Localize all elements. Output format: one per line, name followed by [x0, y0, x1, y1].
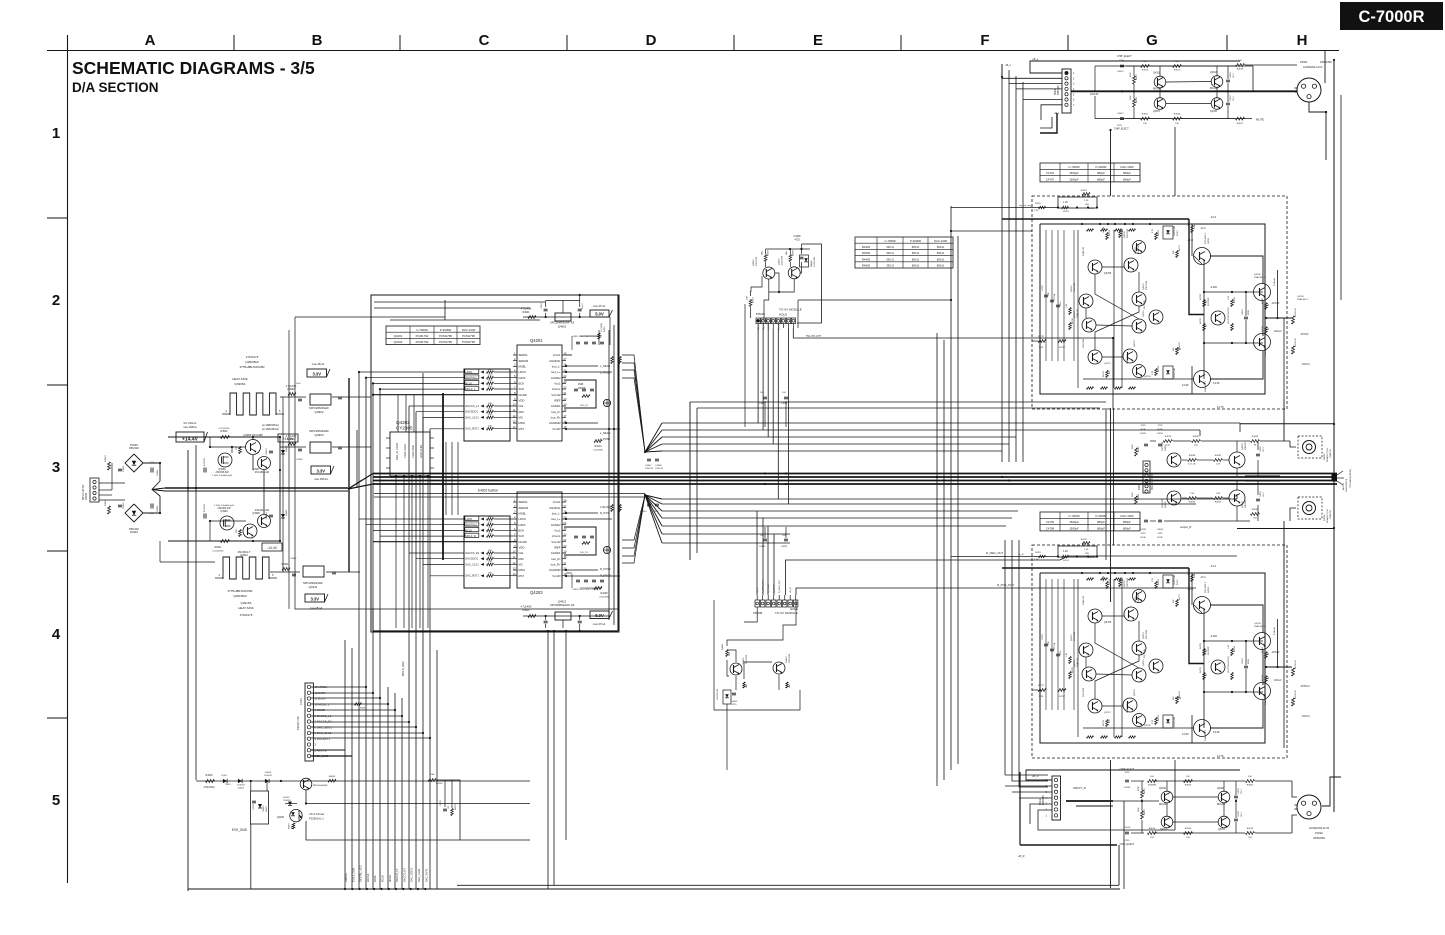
svg-text:CHIP_ELECT: CHIP_ELECT: [1117, 55, 1132, 58]
svg-text:DATA: DATA: [519, 523, 526, 527]
svg-text:C: C: [479, 32, 490, 49]
svg-text:C4065: C4065: [1260, 445, 1262, 452]
grid tick top E|F: [900, 35, 902, 50]
svg-text:MCLK_L: MCLK_L: [465, 387, 476, 391]
power flag 3.3V (bottom): [305, 594, 325, 602]
amp block R mid bias transistor Q4717: [1149, 659, 1163, 673]
svg-text:4700/25: 4700/25: [204, 503, 206, 512]
svg-text:-12.8: -12.8: [1187, 238, 1193, 242]
wire XLR B to right vertical: [1322, 777, 1341, 806]
svg-text:10K_1%: 10K_1%: [580, 405, 588, 407]
right long vertical x1110: [1110, 130, 1112, 196]
resistor R4915 4.47(1/2W): [108, 506, 111, 514]
svg-text:Q4723: Q4723: [1134, 689, 1136, 696]
transistor Q4015 (lower): [1211, 98, 1223, 110]
LED LA201: [223, 779, 227, 783]
svg-text:R4026: R4026: [1247, 828, 1254, 830]
amp block L transistor Q4703 2SC2000: [1133, 241, 1146, 254]
power flag 3.3V (middle): [311, 466, 331, 474]
svg-text:AGND3R: AGND3R: [549, 421, 561, 425]
wire CN13 pin2 AMUTE: [311, 749, 345, 751]
wire vertical x357: [356, 430, 358, 488]
svg-text:330 Ω: 330 Ω: [886, 251, 894, 255]
transistor Q4032 (lower): [1167, 491, 1181, 505]
svg-text:Q4903BxZ: Q4903BxZ: [245, 360, 259, 364]
cap C4059 CHIP_ELECT: [1125, 779, 1129, 781]
transistor Q4012: [1161, 816, 1173, 828]
svg-text:(or 2SD2394-E): (or 2SD2394-E): [262, 428, 279, 431]
svg-text:R4729: R4729: [1234, 645, 1236, 652]
svg-text:Q4722: Q4722: [1104, 363, 1111, 365]
wire bundle top link: [951, 230, 1032, 232]
svg-text:P4305: P4305: [1139, 483, 1141, 490]
wire box top rails: [374, 301, 545, 303]
svg-text:680μF: 680μF: [1123, 178, 1131, 182]
svg-text:680μF: 680μF: [1097, 527, 1105, 531]
resistor R4057 100: [1141, 117, 1150, 120]
svg-text:C4907: C4907: [290, 558, 297, 560]
svg-text:0.22(1/2W): 0.22(1/2W): [213, 551, 224, 553]
zener D4901 UDZ11B: [281, 514, 285, 518]
svg-text:R4029: R4029: [1136, 96, 1138, 103]
amp block L transistor Q4710 2SA1312: [1124, 258, 1138, 272]
svg-text:R4306: R4306: [768, 249, 770, 256]
wires RCA section: [1150, 440, 1156, 442]
svg-text:MC: MC: [519, 562, 523, 566]
svg-text:-0.628: -0.628: [1210, 286, 1217, 289]
amp block R transistor Q4713 2SC3324: [1132, 641, 1146, 655]
amp block L VAS transistor lower 2SA1360: [1194, 371, 1211, 388]
amp block R dashed enclosure: [1032, 545, 1287, 758]
resistor R4081 100: [1192, 440, 1201, 443]
bridge rectifier RBV402 (upper): [125, 454, 143, 472]
resistor R4084 (lower mute): [1251, 513, 1260, 516]
svg-text:4.7(1/4W): 4.7(1/4W): [599, 597, 609, 599]
svg-text:R4739: R4739: [1103, 719, 1105, 726]
svg-text:DACSDO1: DACSDO1: [465, 410, 478, 414]
svg-text:-12.8: -12.8: [1187, 587, 1193, 591]
svg-text:C4908: C4908: [655, 465, 662, 467]
svg-text:RN1441: RN1441: [1153, 89, 1162, 91]
svg-text:DC 220mA: DC 220mA: [184, 421, 197, 425]
svg-text:2.7K: 2.7K: [1152, 577, 1154, 582]
resistor R4905 330: [239, 447, 242, 454]
svg-text:Q4712: Q4712: [1071, 285, 1073, 292]
svg-text:680 Ω: 680 Ω: [912, 264, 920, 268]
resistor 220K lower: [1135, 496, 1138, 504]
svg-text:P-3000R: P-3000R: [910, 239, 921, 243]
amp block L transistor Q4723 2SC3324: [1123, 349, 1137, 363]
bypass caps bottom of Q4203: [576, 579, 580, 581]
svg-text:-14.3: -14.3: [1210, 215, 1216, 219]
resistor R4029 220K: [1133, 99, 1136, 107]
svg-text:181mV: 181mV: [1274, 330, 1282, 333]
svg-text:R4057: R4057: [1142, 114, 1149, 116]
svg-text:-14.3: -14.3: [1210, 564, 1216, 568]
svg-text:A: A: [145, 32, 156, 49]
svg-text:C4705: C4705: [1042, 633, 1044, 640]
amp block L VAS transistor 2SC3422-Y: [1194, 248, 1211, 265]
svg-text:RCA(OUT)-16: RCA(OUT)-16: [1326, 447, 1329, 462]
svg-text:+B_R: +B_R: [1018, 854, 1025, 858]
svg-text:UGZ05-HB: UGZ05-HB: [1174, 574, 1176, 585]
regulator Q4902 MPC29M33HF: [310, 394, 331, 405]
grid tick top D|E: [733, 35, 735, 50]
resistor 220K R4003: [1141, 790, 1144, 798]
amp block outside resistors upper: [1292, 316, 1295, 324]
svg-text:680μF: 680μF: [1123, 171, 1131, 175]
amp block R top rail dots: [1081, 572, 1083, 574]
resistor R4083 (mute): [1251, 440, 1260, 443]
svg-text:R4743: R4743: [1179, 690, 1181, 697]
transistor Q4313 2SC2000: [788, 267, 800, 279]
transistor Q4031 2SC2240: [1167, 453, 1181, 467]
grid tick left 2|3: [47, 384, 67, 386]
svg-text:5.0V: 5.0V: [595, 311, 604, 316]
cap C4400 4725: [732, 692, 736, 694]
svg-text:EV3.3_GND: EV3.3_GND: [351, 868, 355, 882]
svg-text:BCLK: BCLK: [465, 381, 472, 385]
svg-text:11 BCLK: 11 BCLK: [315, 697, 326, 701]
svg-text:Q4711: Q4711: [1208, 237, 1210, 244]
buffer bottom rail: [1095, 118, 1252, 120]
svg-text:680 Ω: 680 Ω: [937, 251, 945, 255]
svg-text:COLD: COLD: [1090, 92, 1099, 96]
svg-text:C4913: C4913: [266, 448, 268, 455]
svg-text:DGND: DGND: [519, 540, 527, 544]
amp block L emitter resistors: [1106, 233, 1109, 240]
svg-text:13.25: 13.25: [1213, 730, 1220, 734]
svg-text:R4228: R4228: [600, 592, 608, 595]
svg-text:101J: 101J: [1233, 97, 1235, 101]
wire DAC outputs to fan R: [622, 495, 645, 540]
svg-text:C-7000R: C-7000R: [884, 239, 895, 243]
amp block R output emitter resistors: [1265, 652, 1268, 659]
caps C4930/C4932 104: [763, 538, 767, 540]
right long vertical x1334: [1333, 60, 1335, 812]
transistor Q4905 2SA1488: [246, 440, 261, 455]
mid-right vertical bundle: [936, 333, 938, 786]
svg-text:4 DACRST1: 4 DACRST1: [315, 737, 331, 741]
resistor R4090 lower: [1188, 497, 1197, 500]
svg-text:220B: 220B: [1248, 310, 1250, 315]
amp block R transistor Q4710 2SA1312: [1124, 607, 1138, 621]
svg-text:D4201: D4201: [238, 788, 245, 790]
svg-text:DACCS_RT: DACCS_RT: [402, 868, 406, 882]
svg-text:C4915 10uJ C4917 220/16: C4915 10uJ C4917 220/16: [572, 589, 599, 591]
svg-text:Q4908: Q4908: [252, 512, 260, 515]
opto coupler Q4205 PS2561AL-1: [290, 809, 302, 821]
amp block R transistor Q4706 2SA1312: [1088, 609, 1102, 623]
wire DGND heavy upper: [373, 394, 517, 396]
svg-text:2SD655: 2SD655: [1245, 499, 1247, 508]
cap C4057 CHIP_ELECT (lower): [1120, 117, 1124, 119]
svg-text:Q4032: Q4032: [1165, 501, 1167, 508]
svg-text:2SC3324: 2SC3324: [1074, 631, 1076, 641]
svg-text:C4911: C4911: [157, 469, 159, 476]
amp block R emitter resistors: [1106, 582, 1109, 589]
output network lower right of Q4203: [611, 505, 614, 512]
svg-text:+14.4V: +14.4V: [283, 437, 295, 441]
svg-text:R4233: R4233: [455, 803, 457, 810]
amp block L sig input wire: [951, 207, 1058, 209]
svg-text:LRCK: LRCK: [519, 370, 527, 374]
svg-text:DIGITAL_+3.3: DIGITAL_+3.3: [359, 865, 363, 882]
svg-text:R4060: R4060: [1185, 785, 1192, 787]
svg-text:AGND3R: AGND3R: [549, 568, 561, 572]
svg-text:R4330: R4330: [862, 245, 871, 249]
svg-text:5.0V: 5.0V: [595, 613, 604, 618]
svg-text:Q4907: Q4907: [252, 468, 260, 471]
wire rail corners: [1252, 66, 1254, 91]
svg-text:2SC2000: 2SC2000: [789, 653, 791, 663]
svg-text:R4729: R4729: [1234, 296, 1236, 303]
diode block D4005 UED05-1B: [251, 791, 269, 824]
svg-text:E4302 busbar: E4302 busbar: [478, 489, 499, 493]
svg-text:R4201: R4201: [604, 325, 606, 332]
svg-text:P4001: P4001: [1300, 60, 1308, 64]
amp block R output transistor Q4708 2SA1360: [1254, 633, 1271, 650]
svg-text:2SC3422-Y: 2SC3422-Y: [1205, 232, 1207, 244]
svg-text:2.7K: 2.7K: [1152, 228, 1154, 233]
svg-text:2225: 2225: [1119, 60, 1125, 62]
svg-text:Q4201: Q4201: [394, 334, 403, 338]
svg-text:Q4016: Q4016: [1159, 788, 1167, 790]
svg-text:MCLK_R: MCLK_R: [465, 534, 476, 538]
svg-text:181mV: 181mV: [1274, 679, 1282, 682]
svg-text:CHIP_ELECT: CHIP_ELECT: [1120, 768, 1135, 771]
svg-text:2SK365-GR: 2SK365-GR: [216, 471, 229, 474]
amp block L top rail dots: [1081, 223, 1083, 225]
svg-text:R4738: R4738: [1158, 365, 1160, 372]
svg-text:2SA1312: 2SA1312: [1126, 703, 1129, 713]
connector P4801 7-pin: [1062, 69, 1071, 113]
svg-text:Q4014: Q4014: [1218, 829, 1226, 831]
svg-text:AC/MAIN4-AU R: AC/MAIN4-AU R: [1303, 65, 1322, 69]
svg-text:220K: 220K: [1130, 72, 1132, 77]
svg-text:Vcc2R: Vcc2R: [552, 427, 560, 431]
svg-text:R4088: R4088: [1138, 493, 1140, 500]
svg-text:680 Ω: 680 Ω: [937, 245, 945, 249]
svg-text:D4202: D4202: [283, 797, 290, 799]
svg-text:C4400: C4400: [731, 701, 738, 703]
svg-text:R_POS2: R_POS2: [768, 584, 770, 593]
wires TO-XV upper to bus: [757, 328, 759, 423]
svg-text:C4023: C4023: [1238, 787, 1240, 794]
transistor Q4014: [1218, 816, 1230, 828]
resistor R4331 23K: [749, 300, 752, 307]
amp block R zener diode blocks: [1163, 575, 1173, 588]
svg-text:R4308: R4308: [792, 249, 794, 256]
amp block R sig input wire: [951, 556, 1058, 558]
wire lower TO-XV drop: [726, 704, 728, 770]
wires buffer R internal: [1126, 65, 1140, 67]
amp block R bottom resistor row: [1087, 736, 1094, 738]
svg-text:EV5_GND: EV5_GND: [232, 828, 248, 832]
wire vertical feed x443: [442, 393, 444, 560]
resistor R4401 22K: [726, 650, 729, 657]
svg-text:DACCS_R1: DACCS_R1: [465, 551, 479, 555]
svg-text:2SA1312: 2SA1312: [1076, 657, 1079, 667]
wires TO-XV upper pins down: [757, 324, 759, 328]
svg-text:Q4714: Q4714: [1074, 311, 1076, 318]
resistor R4060 100: [1184, 780, 1193, 783]
resistor R4308 VAL: [789, 255, 792, 262]
svg-text:101J: 101J: [1263, 493, 1265, 497]
power flag +14.4V small: [278, 434, 298, 442]
wire EV5 vertical: [250, 824, 252, 889]
wire rca loop top: [1240, 423, 1334, 425]
svg-text:3TTB+8BL5CMU5R: 3TTB+8BL5CMU5R: [228, 589, 253, 593]
svg-text:Iout_R+: Iout_R+: [551, 415, 561, 419]
amp block R bias network resistors: [1203, 649, 1206, 656]
amp block R left cap bank: [1045, 579, 1047, 710]
svg-text:AGND1: AGND1: [551, 551, 561, 555]
svg-text:2SC232P: 2SC232P: [1208, 297, 1210, 306]
svg-text:220K: 220K: [1132, 492, 1134, 497]
grid tick left 1|2: [47, 217, 67, 219]
svg-text:680 Ω: 680 Ω: [937, 257, 945, 261]
grid tick top C|D: [566, 35, 568, 50]
svg-text:IREF: IREF: [554, 545, 561, 549]
svg-text:R4630: R4630: [862, 264, 871, 268]
svg-text:C4021: C4021: [1230, 71, 1232, 78]
bridge rectifier RBV402 (lower): [125, 504, 143, 522]
amp block L output node wire: [1266, 317, 1292, 319]
svg-text:10uJ: 10uJ: [296, 383, 301, 385]
svg-text:R4019: R4019: [1237, 69, 1244, 71]
amp block R cross-coupled wires: [1095, 623, 1139, 668]
svg-text:2SC2000: 2SC2000: [782, 255, 784, 265]
svg-text:2SA1360-Y: 2SA1360-Y: [1204, 380, 1207, 392]
svg-text:R4092: R4092: [1215, 502, 1222, 504]
svg-text:220K: 220K: [1130, 95, 1132, 100]
heavy bottom L wire: [1020, 844, 1117, 846]
resistor R4015 100: [1141, 65, 1150, 68]
grid tick left 4|5: [47, 717, 67, 719]
XLR jack P4001 AC/MAIN4-AU R: [1297, 78, 1321, 102]
power rail to busbar: [165, 487, 348, 489]
junction dots power rails: [187, 487, 189, 489]
bottom rail y889 heavy: [188, 888, 1120, 890]
svg-text:VcomR: VcomR: [551, 393, 560, 397]
svg-text:Q4902: Q4902: [314, 410, 323, 414]
svg-text:TO-XV MODULE: TO-XV MODULE: [775, 611, 798, 615]
svg-text:Q4702: Q4702: [1124, 580, 1126, 587]
amp block L transistor Q4726 2SA1312: [1133, 365, 1146, 378]
svg-text:2T160179: 2T160179: [246, 355, 259, 359]
svg-text:2SC2000: 2SC2000: [1127, 228, 1129, 238]
svg-text:2.2K: 2.2K: [1034, 559, 1039, 561]
svg-text:2200/16: 2200/16: [645, 468, 654, 470]
svg-text:R4720: R4720: [1200, 293, 1202, 300]
resistor R4430 VAL: [786, 682, 788, 688]
border frame top rule: [47, 50, 1339, 52]
svg-text:BCLK: BCLK: [381, 875, 385, 882]
resistor R4306 VAL: [764, 255, 767, 262]
svg-text:1.2K: 1.2K: [1084, 549, 1089, 551]
connector P4500B TO-XV MODULE (lower): [755, 600, 759, 607]
svg-text:C4052: C4052: [1157, 529, 1164, 531]
svg-text:680μF: 680μF: [1123, 527, 1131, 531]
caps C4062/C4052 lower: [1144, 519, 1148, 521]
caps C4023/C4025: [1234, 795, 1238, 797]
svg-text:DA(A0): DA(A0): [810, 260, 813, 267]
svg-text:D4904: D4904: [130, 530, 138, 534]
transistor Q4908 2SA1015: [258, 515, 271, 528]
svg-text:C4927: C4927: [1242, 657, 1244, 664]
svg-text:P4002(?) 3/E: P4002(?) 3/E: [298, 716, 300, 730]
wire DGND heavy lower: [373, 541, 517, 543]
svg-text:MPC29M33HF: MPC29M33HF: [309, 429, 329, 433]
svg-text:4725: 4725: [1141, 425, 1147, 427]
wire bridge to junction: [143, 463, 160, 481]
svg-text:LRCK: LRCK: [519, 517, 527, 521]
wire signal rows to upper network: [359, 371, 464, 373]
labels lower TO-XV pins: [756, 595, 758, 600]
svg-text:181mV: 181mV: [1302, 715, 1310, 718]
svg-text:R4083: R4083: [1252, 436, 1259, 438]
svg-text:RJ701: RJ701: [1177, 578, 1179, 585]
svg-text:0.565: 0.565: [1175, 348, 1182, 351]
resistor R4903 0.22(1/2W): [221, 435, 230, 438]
svg-text:R4727: R4727: [1038, 336, 1045, 338]
svg-text:R4732: R4732: [1109, 578, 1111, 585]
svg-text:680 Ω: 680 Ω: [912, 251, 920, 255]
svg-text:101J: 101J: [1241, 813, 1243, 817]
svg-text:AGND3L: AGND3L: [549, 359, 561, 363]
wire R4331 drop: [744, 304, 746, 427]
svg-text:Q4714: Q4714: [1074, 660, 1076, 667]
resistor R4079 100: [1164, 440, 1173, 443]
svg-text:R_POS_OUT: R_POS_OUT: [997, 583, 1014, 587]
wire CN13 pin1 EV_GND heavy: [311, 755, 352, 757]
connector P4305 HSAS-13P1930: [1143, 461, 1150, 493]
svg-text:R4209: R4209: [436, 783, 443, 785]
svg-text:Q4726: Q4726: [1144, 725, 1151, 727]
clock IC Q4202 CY2305: [390, 432, 430, 476]
wires DAC right out upper: [566, 365, 598, 367]
busbar E4302 heavy rails: [373, 473, 1337, 475]
svg-text:C-7000R: C-7000R: [1358, 8, 1424, 26]
wire buffer to amp block links: [1174, 127, 1176, 196]
svg-text:P-3000R: P-3000R: [1095, 514, 1106, 518]
svg-text:Q4313: Q4313: [779, 258, 781, 265]
amp block L transistor Q4713 2SC3324: [1132, 292, 1146, 306]
svg-text:1: 1: [52, 125, 60, 142]
svg-text:2.7K: 2.7K: [1152, 719, 1154, 724]
wires lower TO-XV to bus: [756, 511, 758, 595]
svg-text:LtQ01: LtQ01: [221, 774, 228, 777]
svg-text:ZEROL: ZEROL: [519, 353, 529, 357]
svg-text:3: 3: [52, 459, 60, 476]
svg-text:6 DAC_SDO1: 6 DAC_SDO1: [315, 725, 333, 729]
svg-text:R4726 22: R4726 22: [1295, 659, 1297, 669]
svg-text:BCLK: BCLK: [465, 528, 472, 532]
svg-text:Vcc2L: Vcc2L: [553, 500, 561, 504]
wire to 14.4V regulators: [280, 469, 306, 471]
amp block L zener diode blocks: [1163, 226, 1173, 239]
svg-text:22K: 22K: [729, 652, 731, 656]
svg-text:BCK: BCK: [519, 381, 525, 385]
svg-text:HSAS-13P1930: HSAS-13P1930: [1151, 473, 1154, 490]
wire vertical x423: [422, 373, 424, 432]
bypass caps C4911/C4912 top of Q4201: [576, 341, 580, 343]
svg-text:P4003: P4003: [1324, 453, 1326, 460]
svg-text:CHIP_ELECT: CHIP_ELECT: [1114, 128, 1129, 131]
svg-text:AC3MAIN4-AU B: AC3MAIN4-AU B: [1309, 826, 1329, 830]
amp block outside resistors lower: [1292, 668, 1295, 676]
